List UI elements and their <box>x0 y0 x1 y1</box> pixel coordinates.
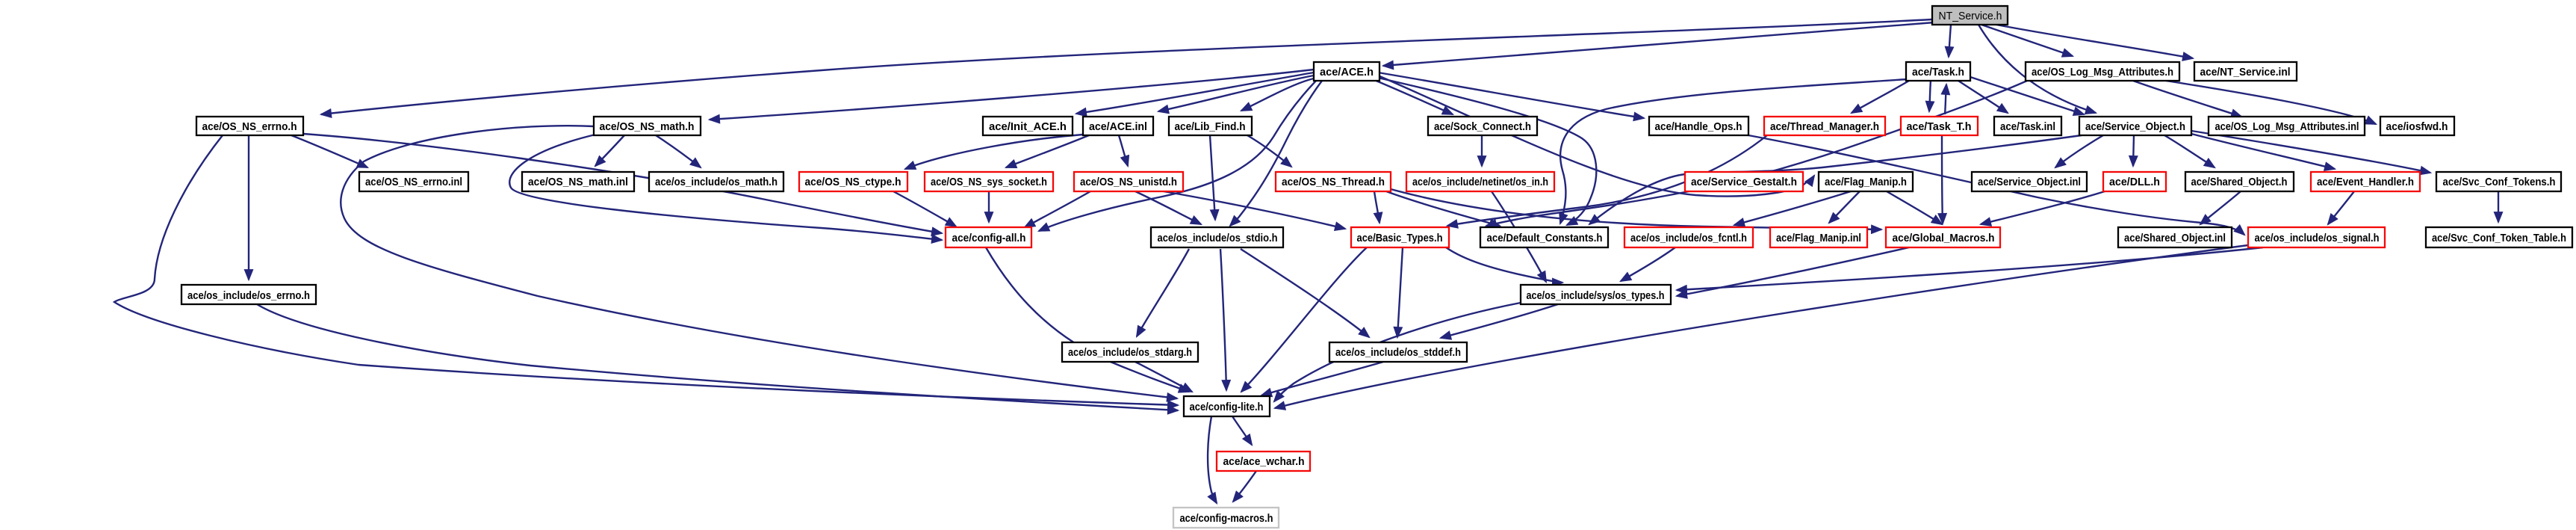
svg-text:ace/Init_ACE.h: ace/Init_ACE.h <box>989 120 1067 133</box>
svg-text:ace/Task.h: ace/Task.h <box>1912 66 1964 78</box>
svg-text:ace/Flag_Manip.h: ace/Flag_Manip.h <box>1825 176 1907 188</box>
svg-text:ace/Svc_Conf_Token_Table.h: ace/Svc_Conf_Token_Table.h <box>2432 232 2566 244</box>
svg-text:ace/iosfwd.h: ace/iosfwd.h <box>2386 120 2448 133</box>
svg-text:ace/Thread_Manager.h: ace/Thread_Manager.h <box>1770 120 1879 133</box>
svg-text:ace/OS_Log_Msg_Attributes.h: ace/OS_Log_Msg_Attributes.h <box>2032 66 2173 78</box>
svg-text:NT_Service.h: NT_Service.h <box>1939 10 2002 22</box>
svg-text:ace/os_include/os_stdio.h: ace/os_include/os_stdio.h <box>1158 232 1278 244</box>
svg-text:ace/Lib_Find.h: ace/Lib_Find.h <box>1175 120 1246 133</box>
svg-text:ace/NT_Service.inl: ace/NT_Service.inl <box>2200 66 2291 78</box>
svg-text:ace/Global_Macros.h: ace/Global_Macros.h <box>1893 232 1995 244</box>
svg-text:ace/Flag_Manip.inl: ace/Flag_Manip.inl <box>1776 232 1861 244</box>
svg-text:ace/OS_NS_unistd.h: ace/OS_NS_unistd.h <box>1080 176 1177 188</box>
svg-text:ace/os_include/os_fcntl.h: ace/os_include/os_fcntl.h <box>1630 232 1747 244</box>
svg-text:ace/os_include/netinet/os_in.h: ace/os_include/netinet/os_in.h <box>1412 176 1548 188</box>
svg-text:ace/Task_T.h: ace/Task_T.h <box>1907 120 1972 133</box>
svg-text:ace/config-macros.h: ace/config-macros.h <box>1180 512 1273 525</box>
svg-text:ace/OS_NS_math.inl: ace/OS_NS_math.inl <box>528 176 628 188</box>
svg-text:ace/Default_Constants.h: ace/Default_Constants.h <box>1487 232 1603 244</box>
svg-text:ace/Shared_Object.h: ace/Shared_Object.h <box>2191 176 2288 188</box>
svg-text:ace/Event_Handler.h: ace/Event_Handler.h <box>2317 176 2414 188</box>
svg-text:ace/Service_Object.inl: ace/Service_Object.inl <box>1978 176 2081 188</box>
svg-text:ace/DLL.h: ace/DLL.h <box>2109 176 2160 188</box>
svg-text:ace/config-all.h: ace/config-all.h <box>952 232 1026 244</box>
svg-text:ace/os_include/os_math.h: ace/os_include/os_math.h <box>655 176 778 188</box>
svg-text:ace/Svc_Conf_Tokens.h: ace/Svc_Conf_Tokens.h <box>2443 176 2556 188</box>
svg-text:ace/ace_wchar.h: ace/ace_wchar.h <box>1223 455 1305 468</box>
svg-text:ace/OS_NS_Thread.h: ace/OS_NS_Thread.h <box>1282 176 1385 188</box>
svg-text:ace/Service_Object.h: ace/Service_Object.h <box>2085 120 2185 133</box>
svg-text:ace/Task.inl: ace/Task.inl <box>2000 120 2055 133</box>
svg-text:ace/ACE.h: ace/ACE.h <box>1320 66 1374 78</box>
svg-text:ace/OS_NS_ctype.h: ace/OS_NS_ctype.h <box>805 176 901 188</box>
svg-text:ace/Handle_Ops.h: ace/Handle_Ops.h <box>1655 120 1742 133</box>
svg-text:ace/os_include/os_stddef.h: ace/os_include/os_stddef.h <box>1335 346 1461 359</box>
svg-text:ace/os_include/os_stdarg.h: ace/os_include/os_stdarg.h <box>1068 346 1192 359</box>
svg-text:ace/ACE.inl: ace/ACE.inl <box>1089 120 1147 133</box>
svg-text:ace/OS_Log_Msg_Attributes.inl: ace/OS_Log_Msg_Attributes.inl <box>2215 120 2359 133</box>
svg-text:ace/os_include/os_errno.h: ace/os_include/os_errno.h <box>187 289 310 302</box>
svg-text:ace/Sock_Connect.h: ace/Sock_Connect.h <box>1434 120 1531 133</box>
svg-text:ace/Shared_Object.inl: ace/Shared_Object.inl <box>2124 232 2226 244</box>
svg-text:ace/OS_NS_errno.inl: ace/OS_NS_errno.inl <box>365 176 462 188</box>
svg-text:ace/config-lite.h: ace/config-lite.h <box>1190 401 1264 413</box>
svg-text:ace/Service_Gestalt.h: ace/Service_Gestalt.h <box>1691 176 1797 188</box>
svg-text:ace/os_include/os_signal.h: ace/os_include/os_signal.h <box>2255 232 2380 244</box>
svg-text:ace/OS_NS_errno.h: ace/OS_NS_errno.h <box>202 120 297 133</box>
svg-text:ace/Basic_Types.h: ace/Basic_Types.h <box>1357 232 1443 244</box>
svg-text:ace/os_include/sys/os_types.h: ace/os_include/sys/os_types.h <box>1527 289 1665 302</box>
svg-text:ace/OS_NS_sys_socket.h: ace/OS_NS_sys_socket.h <box>931 176 1047 188</box>
svg-text:ace/OS_NS_math.h: ace/OS_NS_math.h <box>600 120 695 133</box>
